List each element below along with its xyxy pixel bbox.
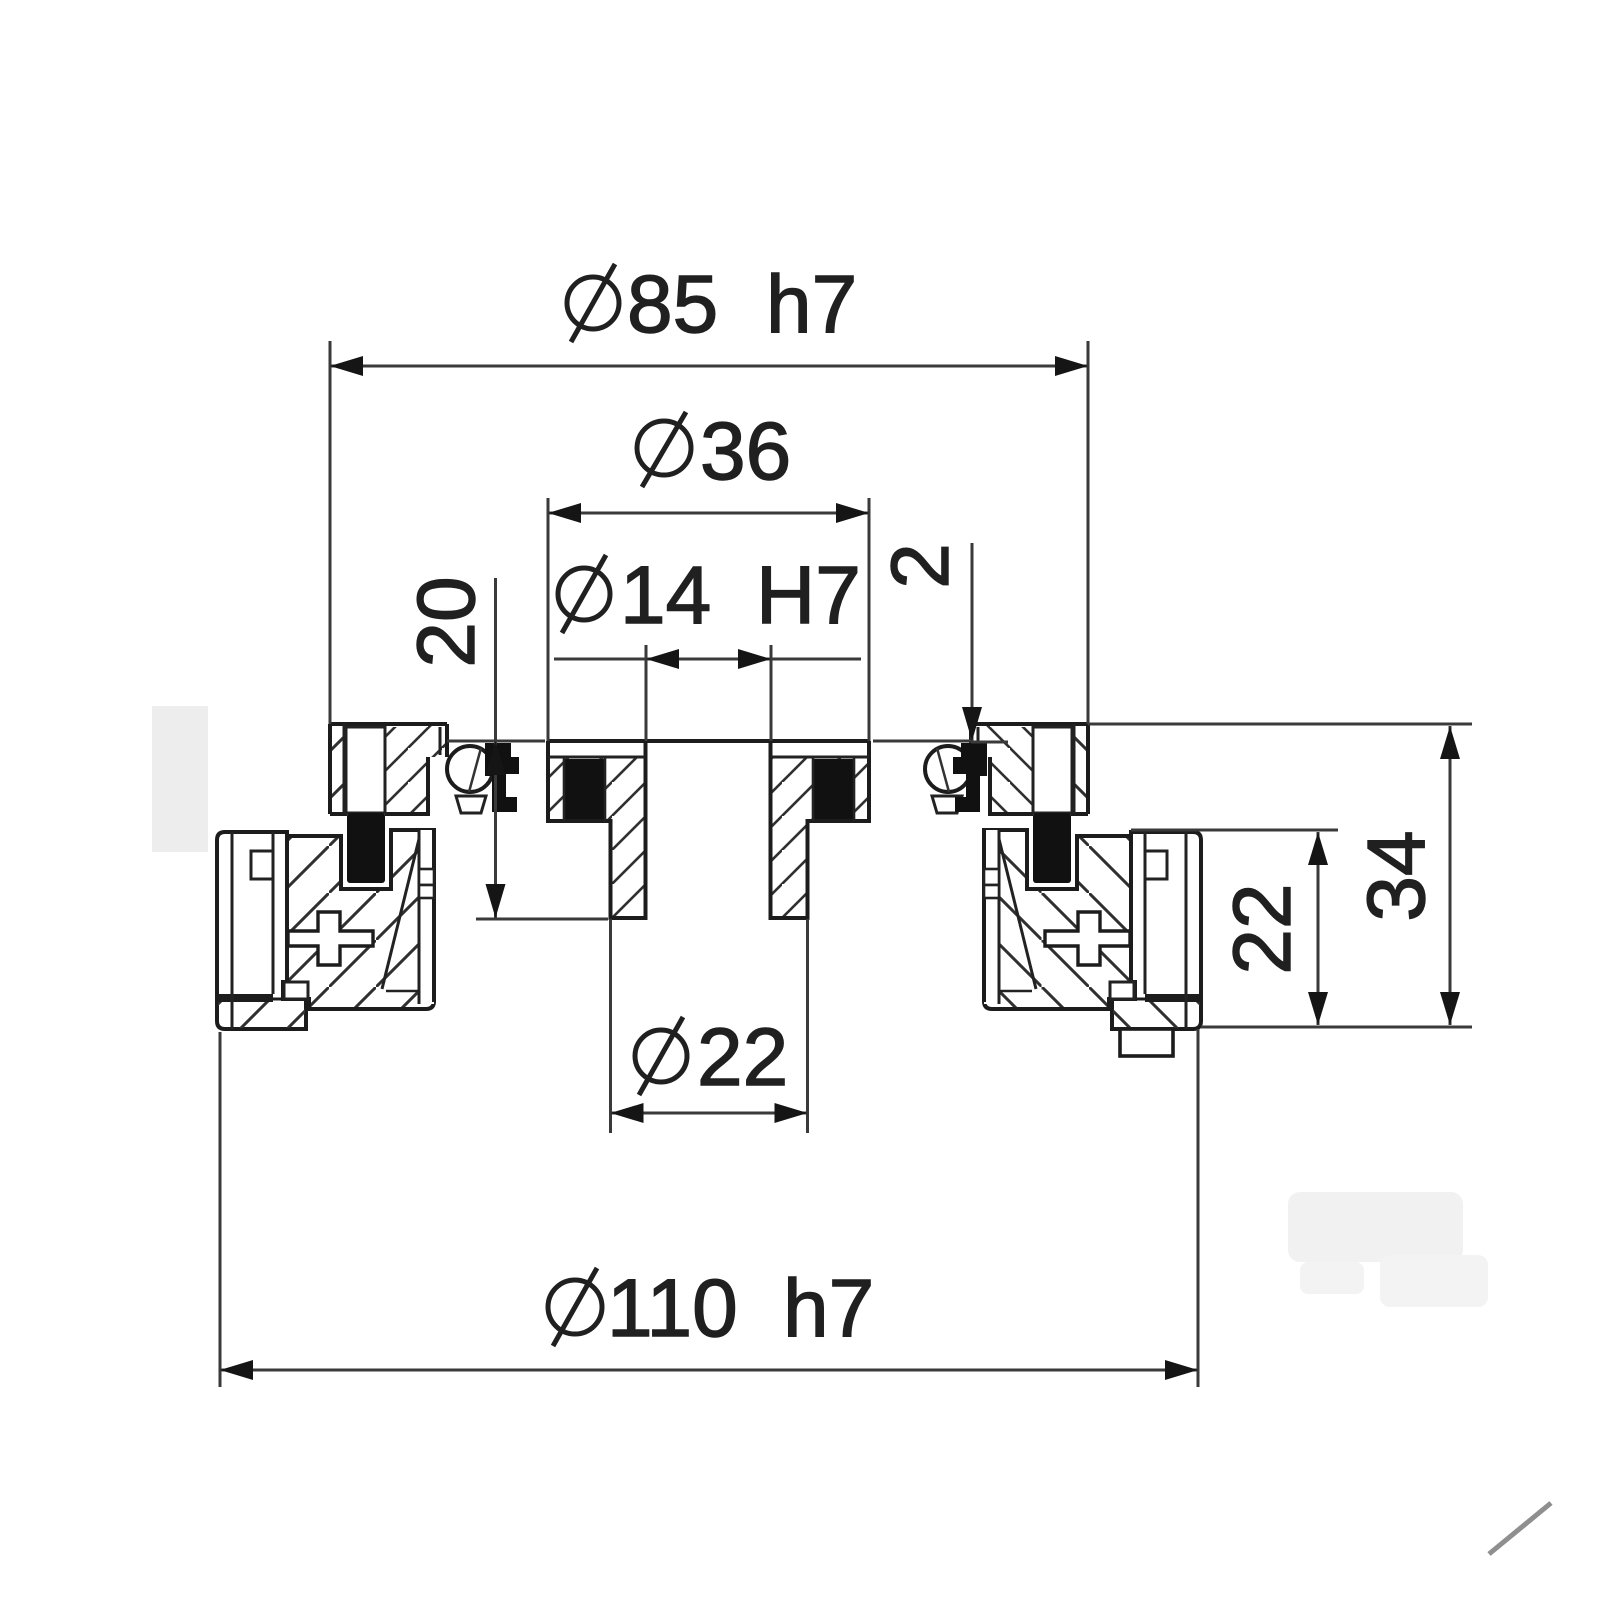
- svg-text:H7: H7: [756, 550, 861, 641]
- svg-text:22: 22: [697, 1012, 788, 1103]
- svg-text:h7: h7: [766, 259, 857, 350]
- svg-text:20: 20: [401, 576, 492, 667]
- svg-text:110: 110: [607, 1263, 738, 1354]
- svg-text:22: 22: [1217, 883, 1308, 974]
- svg-text:85: 85: [627, 259, 718, 350]
- svg-text:34: 34: [1351, 830, 1442, 921]
- svg-text:2: 2: [875, 543, 966, 589]
- svg-text:36: 36: [700, 406, 791, 497]
- svg-text:h7: h7: [783, 1263, 874, 1354]
- svg-text:14: 14: [620, 550, 711, 641]
